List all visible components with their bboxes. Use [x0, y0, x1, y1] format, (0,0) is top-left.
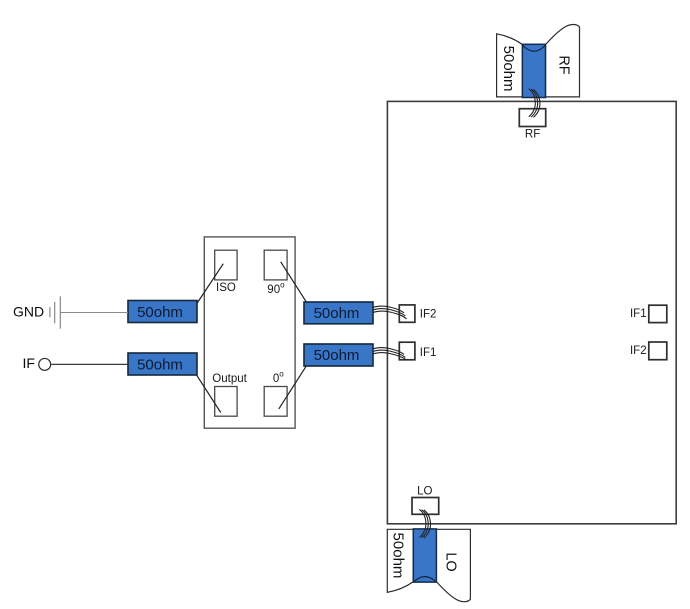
subcircuit block U1 (mixer) outline	[387, 101, 676, 523]
wire IF1 ratsnest squiggle	[368, 348, 407, 360]
svg-text:50ohm: 50ohm	[314, 347, 360, 364]
pin 90deg square	[264, 250, 287, 280]
port RF (top termination symbol)	[497, 24, 580, 96]
wire diagonal left-bottom termination to Output	[197, 375, 221, 412]
termination 50ohm right-bottom	[304, 344, 373, 366]
pin IF2 of block (left top)	[399, 305, 415, 322]
wire IF to left-bottom termination	[51, 363, 128, 365]
termination 50ohm right-top	[304, 302, 373, 324]
wire diagonal 90deg to right-top termination	[281, 262, 311, 310]
ground symbol GND	[50, 296, 60, 328]
ribbon fold arc (LO port)	[414, 577, 435, 582]
coupler block X1 outline	[204, 237, 295, 428]
termination 50ohm blue body (LO)	[413, 529, 436, 582]
wire LO ratsnest squiggle	[419, 509, 430, 538]
ribbon fold arc (RF port)	[522, 45, 545, 51]
svg-text:LO: LO	[442, 552, 458, 571]
svg-text:50ohm: 50ohm	[500, 46, 517, 92]
pin LO of block	[412, 498, 439, 515]
svg-text:90o: 90o	[267, 281, 285, 296]
termination 50ohm blue body (RF)	[522, 44, 545, 97]
port IF circle	[39, 358, 51, 370]
port LO (bottom termination symbol)	[387, 529, 470, 601]
wire diagonal 0deg to right-bottom termination	[279, 361, 310, 409]
svg-text:ISO: ISO	[216, 282, 236, 294]
termination 50ohm left-bottom	[128, 353, 197, 375]
pin IF1 of block (right top)	[649, 305, 667, 322]
svg-text:IF2: IF2	[630, 345, 647, 357]
svg-text:GND: GND	[13, 304, 44, 320]
svg-text:IF1: IF1	[420, 347, 437, 359]
pin ISO square	[215, 250, 237, 280]
svg-text:IF2: IF2	[420, 309, 437, 321]
svg-text:RF: RF	[555, 55, 571, 74]
svg-text:Output: Output	[212, 373, 247, 385]
pin Output square	[215, 387, 237, 417]
svg-text:LO: LO	[417, 486, 432, 498]
svg-text:IF1: IF1	[630, 308, 647, 320]
wire diagonal ISO to left-top termination	[196, 264, 223, 305]
wire IF2 ratsnest squiggle	[368, 306, 407, 319]
svg-text:0o: 0o	[273, 370, 284, 385]
wire GND to left-top termination	[60, 312, 128, 314]
pin 0deg square	[264, 387, 287, 417]
svg-text:IF: IF	[23, 355, 35, 371]
pin RF of block	[519, 109, 545, 127]
svg-text:50ohm: 50ohm	[137, 356, 183, 373]
svg-text:RF: RF	[525, 129, 540, 141]
svg-text:50ohm: 50ohm	[390, 533, 407, 579]
pin IF2 of block (right bottom)	[649, 342, 667, 360]
pin IF1 of block (left bottom)	[399, 342, 415, 360]
termination 50ohm left-top	[128, 301, 197, 323]
wire RF ratsnest squiggle	[529, 89, 540, 118]
svg-text:50ohm: 50ohm	[314, 305, 360, 322]
svg-text:50ohm: 50ohm	[137, 304, 183, 321]
